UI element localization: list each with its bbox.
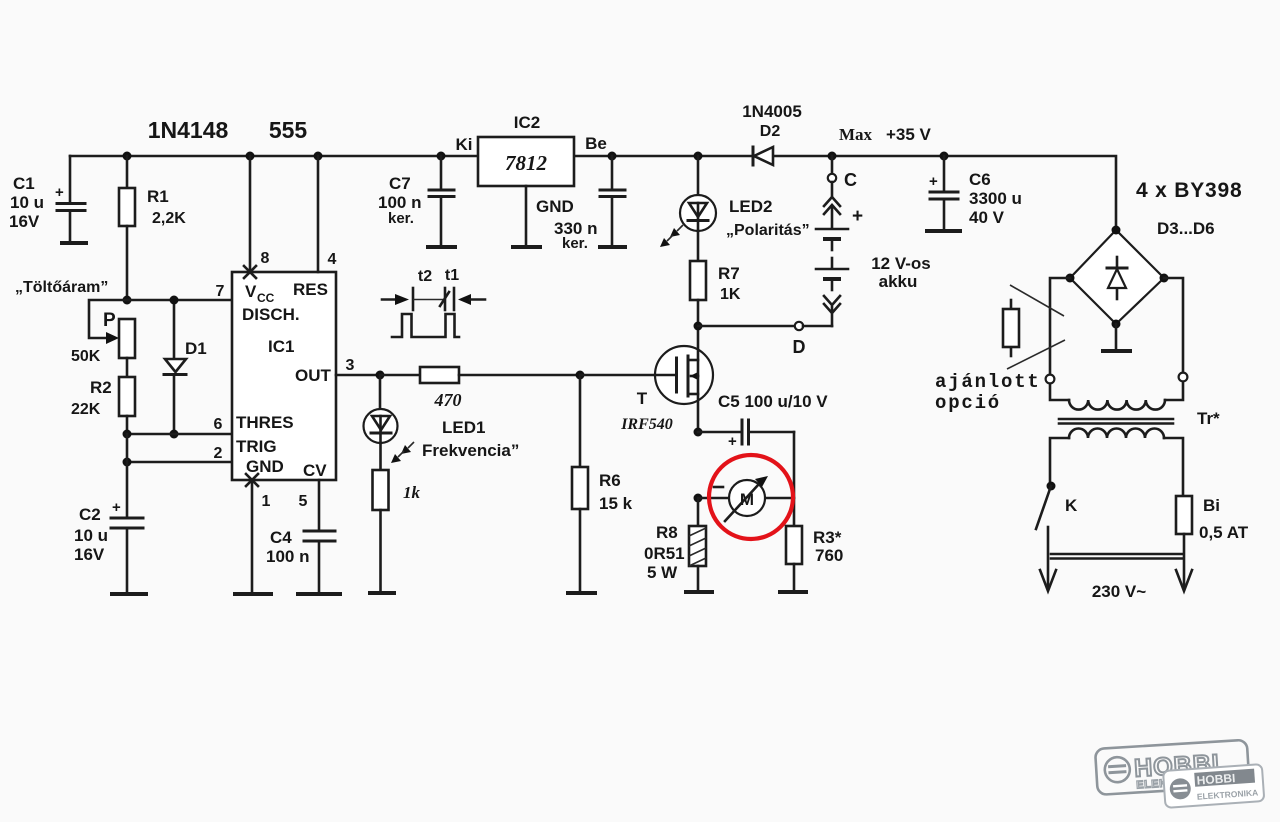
svg-text:D1: D1: [185, 339, 207, 358]
svg-text:4 x BY398: 4 x BY398: [1136, 179, 1242, 202]
node: junction rail/pin8: [246, 152, 255, 161]
svg-text:760: 760: [815, 546, 843, 565]
pointer line 2: [1007, 340, 1065, 369]
svg-text:7: 7: [216, 283, 225, 300]
wire to terminal D: [698, 325, 795, 328]
svg-text:1K: 1K: [720, 286, 741, 303]
node: junction rail/330n: [608, 152, 617, 161]
svg-text:+: +: [55, 184, 64, 201]
node: junction rail/pin4: [314, 152, 323, 161]
svg-text:IRF540: IRF540: [620, 416, 673, 433]
svg-text:6: 6: [214, 416, 223, 433]
diode D2 1N4005: [742, 102, 802, 165]
svg-text:GND: GND: [246, 457, 284, 476]
diode D1: [164, 300, 207, 434]
LED LED1: [364, 375, 398, 470]
svg-text:1N4148: 1N4148: [148, 117, 229, 143]
svg-text:T: T: [637, 389, 648, 408]
ground C4: [296, 592, 342, 596]
mains arrow left: [1040, 570, 1056, 591]
svg-text:D3...D6: D3...D6: [1157, 219, 1215, 238]
node: junction D1 bottom: [170, 430, 179, 439]
label C7 value: [378, 174, 421, 227]
wire bridge left to transformer: [1050, 278, 1070, 374]
svg-text:5: 5: [299, 493, 308, 510]
terminal open circle left: [1046, 375, 1055, 384]
svg-text:2,2K: 2,2K: [152, 210, 186, 227]
label LED2: [726, 197, 810, 239]
svg-text:K: K: [1065, 496, 1078, 515]
svg-text:„Polaritás”: „Polaritás”: [726, 222, 810, 239]
label VCC: [245, 282, 275, 305]
wire pin 8: [249, 156, 252, 272]
ground R8: [684, 590, 714, 594]
svg-text:555: 555: [269, 117, 308, 143]
svg-text:DISCH.: DISCH.: [242, 305, 300, 324]
svg-text:Ki: Ki: [456, 135, 473, 154]
ground C7: [426, 245, 457, 249]
svg-text:RES: RES: [293, 280, 328, 299]
capacitor C4: [304, 531, 335, 592]
terminal open circle right: [1179, 373, 1188, 382]
node: junction R2/THRES: [123, 430, 132, 439]
wire motor left: [698, 497, 729, 500]
wire bridge right to transformer: [1164, 278, 1183, 372]
wire D to battery: [803, 325, 832, 328]
wire OUT pin 3: [336, 374, 380, 377]
svg-text:C2: C2: [79, 505, 101, 524]
svg-text:LED1: LED1: [442, 418, 485, 437]
svg-text:R1: R1: [147, 187, 169, 206]
wire IC2 GND lead: [525, 186, 528, 246]
LED2 light arrows: [660, 225, 683, 247]
svg-text:1: 1: [262, 493, 271, 510]
wire drain/source vertical: [697, 326, 700, 432]
wire motor right: [765, 497, 794, 500]
wire gate lead: [580, 374, 676, 377]
resistor 1k: [373, 470, 421, 591]
potentiometer P 50K: [71, 300, 135, 377]
ground 1k: [368, 591, 396, 595]
svg-text:Bi: Bi: [1203, 496, 1220, 515]
pin 8 X mark: [244, 266, 256, 278]
label LED1: [422, 418, 519, 460]
diode inside bridge: [1107, 257, 1127, 299]
ground C2: [110, 592, 148, 596]
node: junction D1 top: [170, 296, 179, 305]
svg-text:Be: Be: [585, 134, 607, 153]
svg-text:+35 V: +35 V: [886, 125, 932, 144]
node: junction rail/R1: [123, 152, 132, 161]
svg-text:Tr*: Tr*: [1197, 409, 1220, 428]
svg-text:ker.: ker.: [388, 210, 414, 227]
LED LED2: [680, 156, 716, 261]
ground R3: [778, 590, 808, 594]
svg-text:R8: R8: [656, 523, 678, 542]
svg-text:GND: GND: [536, 197, 574, 216]
fuse ajanlott opcio: [1003, 300, 1019, 356]
transformer Tr secondary: [1050, 382, 1183, 410]
pin 1 X mark: [246, 474, 258, 486]
wire C5 right leg: [793, 432, 796, 526]
svg-text:0,5 AT: 0,5 AT: [1199, 523, 1249, 542]
label ajanlott opcio: [935, 371, 1041, 414]
capacitor C5: [698, 420, 794, 450]
ground 330n: [598, 245, 627, 249]
svg-text:D2: D2: [760, 123, 781, 140]
svg-text:R6: R6: [599, 471, 621, 490]
capacitor C7: [429, 156, 454, 246]
svg-text:ker.: ker.: [562, 235, 588, 252]
svg-text:100 n: 100 n: [266, 547, 309, 566]
svg-text:230 V~: 230 V~: [1092, 582, 1146, 601]
capacitor C6: [929, 156, 958, 230]
svg-text:4: 4: [328, 251, 337, 268]
resistor R1: [119, 156, 135, 300]
svg-text:2: 2: [214, 445, 223, 462]
svg-text:ajánlott: ajánlott: [935, 371, 1041, 393]
svg-text:opció: opció: [935, 392, 1001, 414]
fuse Bi: [1176, 496, 1249, 588]
svg-text:C6: C6: [969, 170, 991, 189]
svg-text:40 V: 40 V: [969, 208, 1005, 227]
svg-text:IC1: IC1: [268, 337, 294, 356]
resistor R6: [572, 375, 633, 591]
svg-text:7812: 7812: [505, 151, 548, 175]
wire: top +supply rail left segment: [70, 155, 478, 158]
bridge rectifier diamond: [1066, 226, 1169, 329]
svg-text:3300 u: 3300 u: [969, 189, 1022, 208]
node: junction rail/C6: [940, 152, 949, 161]
label Max +35 V: [839, 125, 932, 144]
label C4 value: [266, 528, 309, 566]
label 330n value: [554, 219, 597, 252]
label R1 value: [147, 187, 186, 227]
ground IC2: [511, 245, 542, 249]
node: junction OUT/LED1: [376, 371, 385, 380]
svg-text:TRIG: TRIG: [236, 437, 277, 456]
resistor R7: [690, 261, 741, 326]
node: junction source/C5: [694, 428, 703, 437]
wire: top rail between 7812 and D2: [574, 155, 752, 158]
resistor 470: [380, 367, 580, 410]
red highlight circle: [709, 455, 793, 539]
svg-text:„Töltőáram”: „Töltőáram”: [15, 279, 108, 296]
terminal D open circle: [795, 322, 803, 330]
svg-text:470: 470: [434, 390, 462, 410]
watermark logo big badge: [1095, 740, 1250, 795]
ground bridge: [1101, 349, 1132, 353]
ground R6: [566, 591, 597, 595]
label 12 V-os akku: [871, 254, 931, 291]
switch K: [1036, 482, 1078, 589]
svg-text:C1: C1: [13, 174, 35, 193]
node: junction rail/battery C: [828, 152, 837, 161]
mains double line: [1051, 554, 1182, 559]
wire pin 2 TRIG: [127, 461, 232, 464]
watermark logo small badge: [1163, 764, 1264, 808]
svg-text:+: +: [852, 206, 863, 227]
svg-text:16V: 16V: [74, 545, 105, 564]
svg-text:+: +: [929, 173, 938, 190]
node: junction 470/R6: [576, 371, 585, 380]
wire pin 5: [318, 480, 321, 529]
resistor R8: [644, 498, 706, 590]
wire pin 4: [317, 156, 320, 272]
ground C1: [60, 241, 88, 245]
wire pin 1 to ground: [251, 480, 254, 592]
svg-text:R3*: R3*: [813, 528, 842, 547]
wire pin 6 THRES: [127, 433, 232, 436]
op-amp/timer IC1 555 box: [232, 272, 336, 480]
svg-text:1N4005: 1N4005: [742, 102, 802, 121]
svg-text:+: +: [728, 433, 737, 450]
svg-text:0R51: 0R51: [644, 544, 685, 563]
regulator IC2 7812: [456, 113, 607, 186]
motor M: [714, 476, 768, 521]
svg-text:OUT: OUT: [295, 366, 332, 385]
svg-text:C: C: [844, 170, 857, 190]
svg-text:t2: t2: [418, 268, 432, 285]
battery 12V akku: [816, 182, 863, 326]
node: junction motor left: [694, 494, 703, 503]
capacitor C1: [55, 156, 85, 242]
svg-text:C5 100 u/10 V: C5 100 u/10 V: [718, 392, 828, 411]
label C6 value: [969, 170, 1022, 227]
svg-text:D: D: [793, 337, 806, 357]
transformer Tr primary: [1050, 429, 1183, 497]
transformer core: [1059, 419, 1173, 424]
svg-text:THRES: THRES: [236, 413, 294, 432]
node: junction rail/C7: [437, 152, 446, 161]
svg-text:5 W: 5 W: [647, 563, 678, 582]
svg-text:+: +: [112, 499, 121, 516]
svg-text:R2: R2: [90, 378, 112, 397]
svg-text:IC2: IC2: [514, 113, 540, 132]
waveform t2 t1 diagram: [382, 267, 485, 337]
capacitor 330n: [600, 156, 625, 246]
svg-text:1k: 1k: [403, 483, 421, 502]
resistor R2: [71, 377, 135, 434]
wire pin 7: [127, 299, 232, 302]
terminal C open circle: [828, 156, 857, 190]
svg-text:t1: t1: [445, 267, 459, 284]
svg-text:C4: C4: [270, 528, 292, 547]
svg-text:P: P: [103, 310, 116, 331]
svg-text:V: V: [245, 282, 257, 301]
svg-text:22K: 22K: [71, 401, 101, 418]
svg-text:3: 3: [346, 357, 355, 374]
LED1 light arrows: [391, 442, 414, 463]
svg-text:10 u: 10 u: [74, 526, 108, 545]
pointer line 1: [1010, 285, 1064, 316]
svg-text:50K: 50K: [71, 348, 101, 365]
svg-text:C7: C7: [389, 174, 411, 193]
wire between THRES and TRIG nodes: [126, 434, 129, 462]
svg-text:LED2: LED2: [729, 197, 772, 216]
svg-text:HOBBI: HOBBI: [1196, 771, 1236, 788]
label C2 value: [74, 505, 108, 564]
svg-text:10 u: 10 u: [10, 193, 44, 212]
node: junction TRIG/C2: [123, 458, 132, 467]
transistor T IRF540: [620, 346, 713, 433]
node: junction R7/D wire: [694, 322, 703, 331]
node: junction rail/LED2: [694, 152, 703, 161]
svg-text:R7: R7: [718, 264, 740, 283]
svg-text:16V: 16V: [9, 212, 40, 231]
svg-text:CV: CV: [303, 461, 327, 480]
node: junction pin7 wire: [123, 296, 132, 305]
label C1 value: [9, 174, 44, 231]
svg-text:12 V-os: 12 V-os: [871, 254, 931, 273]
svg-text:8: 8: [261, 250, 270, 267]
wire bridge bottom to ground: [1115, 324, 1118, 349]
ground C6: [925, 229, 962, 233]
svg-text:Max: Max: [839, 125, 873, 144]
resistor R3: [786, 526, 843, 590]
ground pin 1: [233, 592, 273, 596]
svg-text:15 k: 15 k: [599, 494, 633, 513]
mains arrow right: [1176, 570, 1192, 591]
svg-text:akku: akku: [879, 272, 918, 291]
capacitor C2: [111, 462, 143, 592]
svg-text:Frekvencia”: Frekvencia”: [422, 441, 519, 460]
svg-text:CC: CC: [257, 291, 275, 305]
wire: top rail from D2 to bridge corner: [773, 156, 1116, 230]
